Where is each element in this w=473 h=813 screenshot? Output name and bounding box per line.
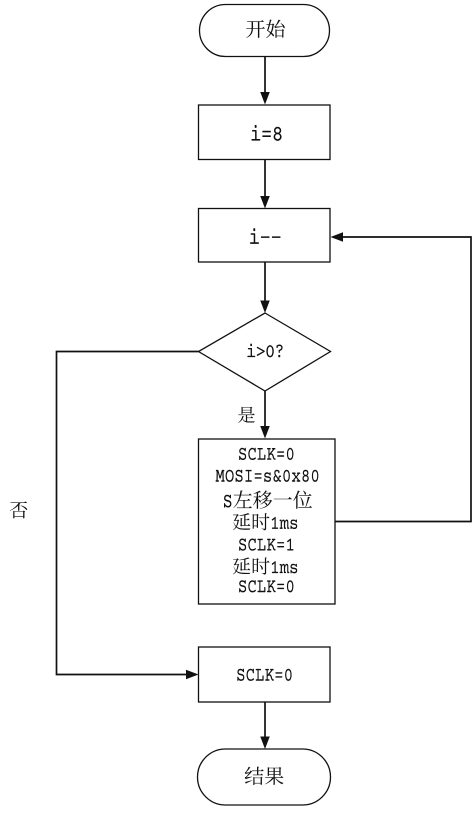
label 否 (no) — [10, 501, 27, 518]
decision diamond i>0? — [199, 313, 331, 391]
feedback wire: loop body right edge to i-- box — [331, 232, 472, 521]
text SCLK=0 (final) — [237, 669, 291, 681]
arrow: START to i=8 — [260, 57, 270, 105]
process box SCLK=0 (final) — [199, 647, 331, 702]
text i-- — [250, 228, 281, 244]
text MOSI=s&0x80 — [216, 470, 319, 482]
arrow: i=8 to i-- — [260, 160, 270, 209]
arrow: SCLK=0 to END — [260, 702, 270, 749]
text 延时1ms (line 4) — [233, 513, 297, 530]
process box loop body — [199, 439, 336, 604]
text i>0? — [247, 344, 282, 358]
terminator END (结果) — [198, 749, 331, 805]
process box i-- — [199, 209, 331, 263]
text 延时1ms (line 6) — [233, 557, 297, 574]
text 开始 — [246, 19, 284, 38]
no-branch wire: decision left vertex to SCLK=0 box — [57, 352, 199, 680]
text SCLK=0 (line 7) — [239, 580, 293, 592]
arrow: i-- to decision — [260, 262, 270, 313]
arrow: decision to loop body (yes branch) — [260, 391, 270, 439]
terminator START (开始) — [200, 5, 330, 57]
text SCLK=0 (line 1) — [239, 448, 293, 460]
text i=8 — [251, 125, 281, 141]
text S左移一位 — [224, 490, 312, 508]
label 是 (yes) — [238, 407, 255, 423]
process box i=8 — [199, 105, 331, 160]
text SCLK=1 — [239, 539, 293, 551]
text 结果 — [245, 767, 284, 785]
